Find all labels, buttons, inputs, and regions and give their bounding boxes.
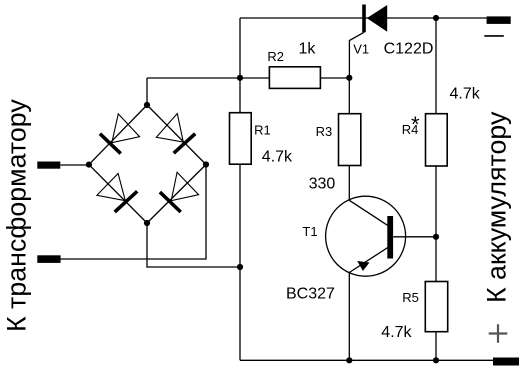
transistor T1 base bar <box>387 216 393 259</box>
transistor T1 circle <box>326 196 406 276</box>
wire transistor emitter diagonal <box>349 248 388 273</box>
resistor R2 body <box>269 67 320 89</box>
svg-text:4.7k: 4.7k <box>262 149 293 166</box>
svg-text:К аккумулятору: К аккумулятору <box>482 111 512 303</box>
wire bridge side lower-left <box>89 165 147 223</box>
wire from top rail down to R2 node <box>239 18 241 78</box>
terminal to transformer upper <box>37 162 60 169</box>
thyristor V1 triangle <box>367 5 387 32</box>
svg-text:R2: R2 <box>267 49 284 64</box>
diode D4 lower-right triangle <box>171 172 198 200</box>
wire transistor collector diagonal <box>349 200 388 225</box>
svg-text:*: * <box>411 112 420 137</box>
wire R3 vertical chain <box>348 78 350 200</box>
junction node bridge top <box>144 102 150 108</box>
wire top rail <box>240 17 487 19</box>
svg-text:T1: T1 <box>302 224 317 239</box>
wire bridge side upper-right <box>147 105 206 165</box>
diode D3 lower-left triangle <box>97 174 125 201</box>
svg-text:V1: V1 <box>353 42 369 57</box>
junction node gate R2 <box>346 75 352 81</box>
svg-text:4.7k: 4.7k <box>450 85 481 102</box>
resistor R4 body <box>426 114 448 166</box>
svg-text:R1: R1 <box>254 122 271 137</box>
diode D2 upper-right triangle <box>156 114 183 143</box>
resistor R3 body <box>339 114 361 166</box>
diode D4 lower-right bar <box>160 192 181 212</box>
resistor R1 body <box>230 113 252 165</box>
svg-text:C122D: C122D <box>384 41 434 58</box>
wire bridge bottom node down and right <box>147 223 240 267</box>
terminal to battery minus <box>487 16 511 24</box>
wire emitter to bottom rail <box>348 273 350 361</box>
junction node emitter bottom rail <box>346 357 352 363</box>
diode D3 lower-left bar <box>115 191 138 212</box>
wire bridge side lower-right <box>147 165 206 224</box>
terminal to battery plus <box>493 358 519 366</box>
junction node R5 bottom rail <box>433 357 439 363</box>
junction node bridge left <box>86 162 92 168</box>
thyristor V1 cathode bar <box>362 5 366 33</box>
terminal to transformer lower <box>37 255 60 263</box>
junction node bridge right <box>203 161 209 167</box>
wire transistor base lead <box>393 236 436 238</box>
wire terminal2 to bridge right node <box>61 165 206 260</box>
plus sign <box>489 324 508 343</box>
wire bridge side upper-left <box>89 105 147 165</box>
svg-text:R5: R5 <box>402 290 419 305</box>
minus sign <box>484 35 504 37</box>
junction node top rail R4 <box>433 15 439 21</box>
junction node bridge bottom <box>144 220 150 226</box>
junction node R1 top <box>237 75 243 81</box>
junction node base R4 R5 <box>433 234 439 240</box>
diode D2 upper-right bar <box>174 134 196 154</box>
svg-text:330: 330 <box>309 176 336 193</box>
wire horizontal rail to R2 <box>147 77 349 79</box>
wire thyristor gate <box>349 32 364 78</box>
resistor R5 body <box>425 282 447 332</box>
diode D1 upper-left triangle <box>112 114 140 143</box>
svg-text:BC327: BC327 <box>286 286 335 303</box>
junction node R1 bottom <box>237 264 243 270</box>
transistor T1 emitter arrow <box>357 261 369 271</box>
svg-text:К трансформатору: К трансформатору <box>2 99 32 332</box>
svg-text:1k: 1k <box>299 41 317 58</box>
wire bottom rail <box>240 359 493 361</box>
svg-text:R3: R3 <box>316 124 333 139</box>
wire R1 vertical chain <box>239 78 241 360</box>
diode D1 upper-left bar <box>100 134 121 154</box>
wire bridge top feed <box>146 78 148 105</box>
wire R4 R5 vertical chain <box>435 18 437 360</box>
wire terminal1 to bridge left node <box>60 164 89 166</box>
svg-text:4.7k: 4.7k <box>381 324 412 341</box>
